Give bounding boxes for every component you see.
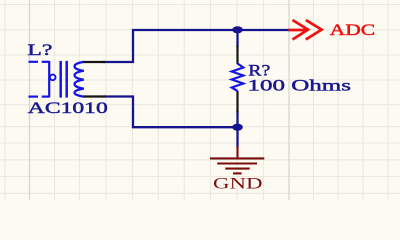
svg-text:100 Ohms: 100 Ohms (248, 76, 352, 95)
svg-text:GND: GND (213, 176, 263, 193)
svg-text:AC1010: AC1010 (28, 98, 108, 117)
svg-text:ADC: ADC (330, 20, 376, 39)
svg-text:L?: L? (27, 40, 52, 59)
